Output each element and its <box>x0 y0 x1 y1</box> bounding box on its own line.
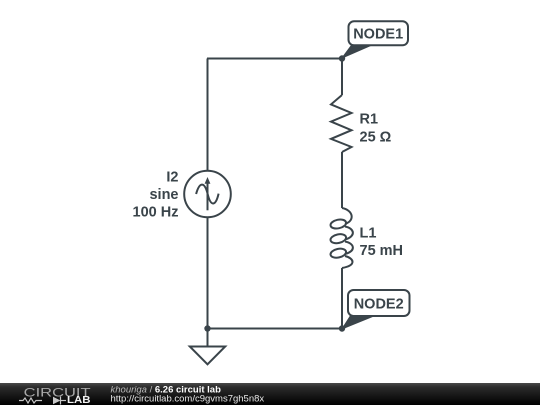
svg-text:100 Hz: 100 Hz <box>133 205 179 221</box>
wire left vertical lower <box>207 217 209 329</box>
junction dot NODE2 <box>339 325 345 331</box>
footer bar <box>0 383 540 405</box>
node NODE2 flag tail <box>342 317 373 330</box>
svg-text:L1: L1 <box>360 226 377 242</box>
wire left vertical upper <box>207 59 209 172</box>
svg-text:LAB: LAB <box>67 395 91 405</box>
node NODE1 flag tail <box>342 45 372 58</box>
svg-text:http://circuitlab.com/c9gvms7g: http://circuitlab.com/c9gvms7gh5n8x <box>111 393 265 404</box>
wire right vertical lower <box>341 268 343 329</box>
svg-text:R1: R1 <box>360 112 379 128</box>
svg-text:25 Ω: 25 Ω <box>360 130 392 146</box>
svg-text:75 mH: 75 mH <box>360 243 404 259</box>
inductor L1 <box>330 208 353 268</box>
ground <box>190 347 225 365</box>
svg-text:NODE2: NODE2 <box>354 296 404 312</box>
footer logo resistor-diode symbol <box>19 397 66 405</box>
wire right vertical upper <box>341 59 343 96</box>
label I2 value text <box>133 170 179 221</box>
footer logo diode triangle <box>53 397 61 404</box>
wire top horizontal <box>207 58 342 60</box>
junction dot ground <box>204 325 210 331</box>
resistor R1 <box>331 95 352 152</box>
label R1 value text <box>360 112 392 146</box>
label L1 value text <box>360 226 404 260</box>
wire ground stub <box>207 329 209 347</box>
junction dot NODE1 <box>339 55 345 61</box>
node NODE2 flag box <box>348 290 410 316</box>
wire right vertical middle <box>341 152 343 208</box>
wire bottom horizontal <box>207 328 342 330</box>
svg-text:NODE1: NODE1 <box>353 26 403 42</box>
current source I2 arrowhead <box>205 177 211 184</box>
node NODE1 flag box <box>349 21 409 45</box>
svg-text:I2: I2 <box>166 170 178 186</box>
current source I2 <box>184 171 231 218</box>
svg-text:sine: sine <box>149 187 178 203</box>
